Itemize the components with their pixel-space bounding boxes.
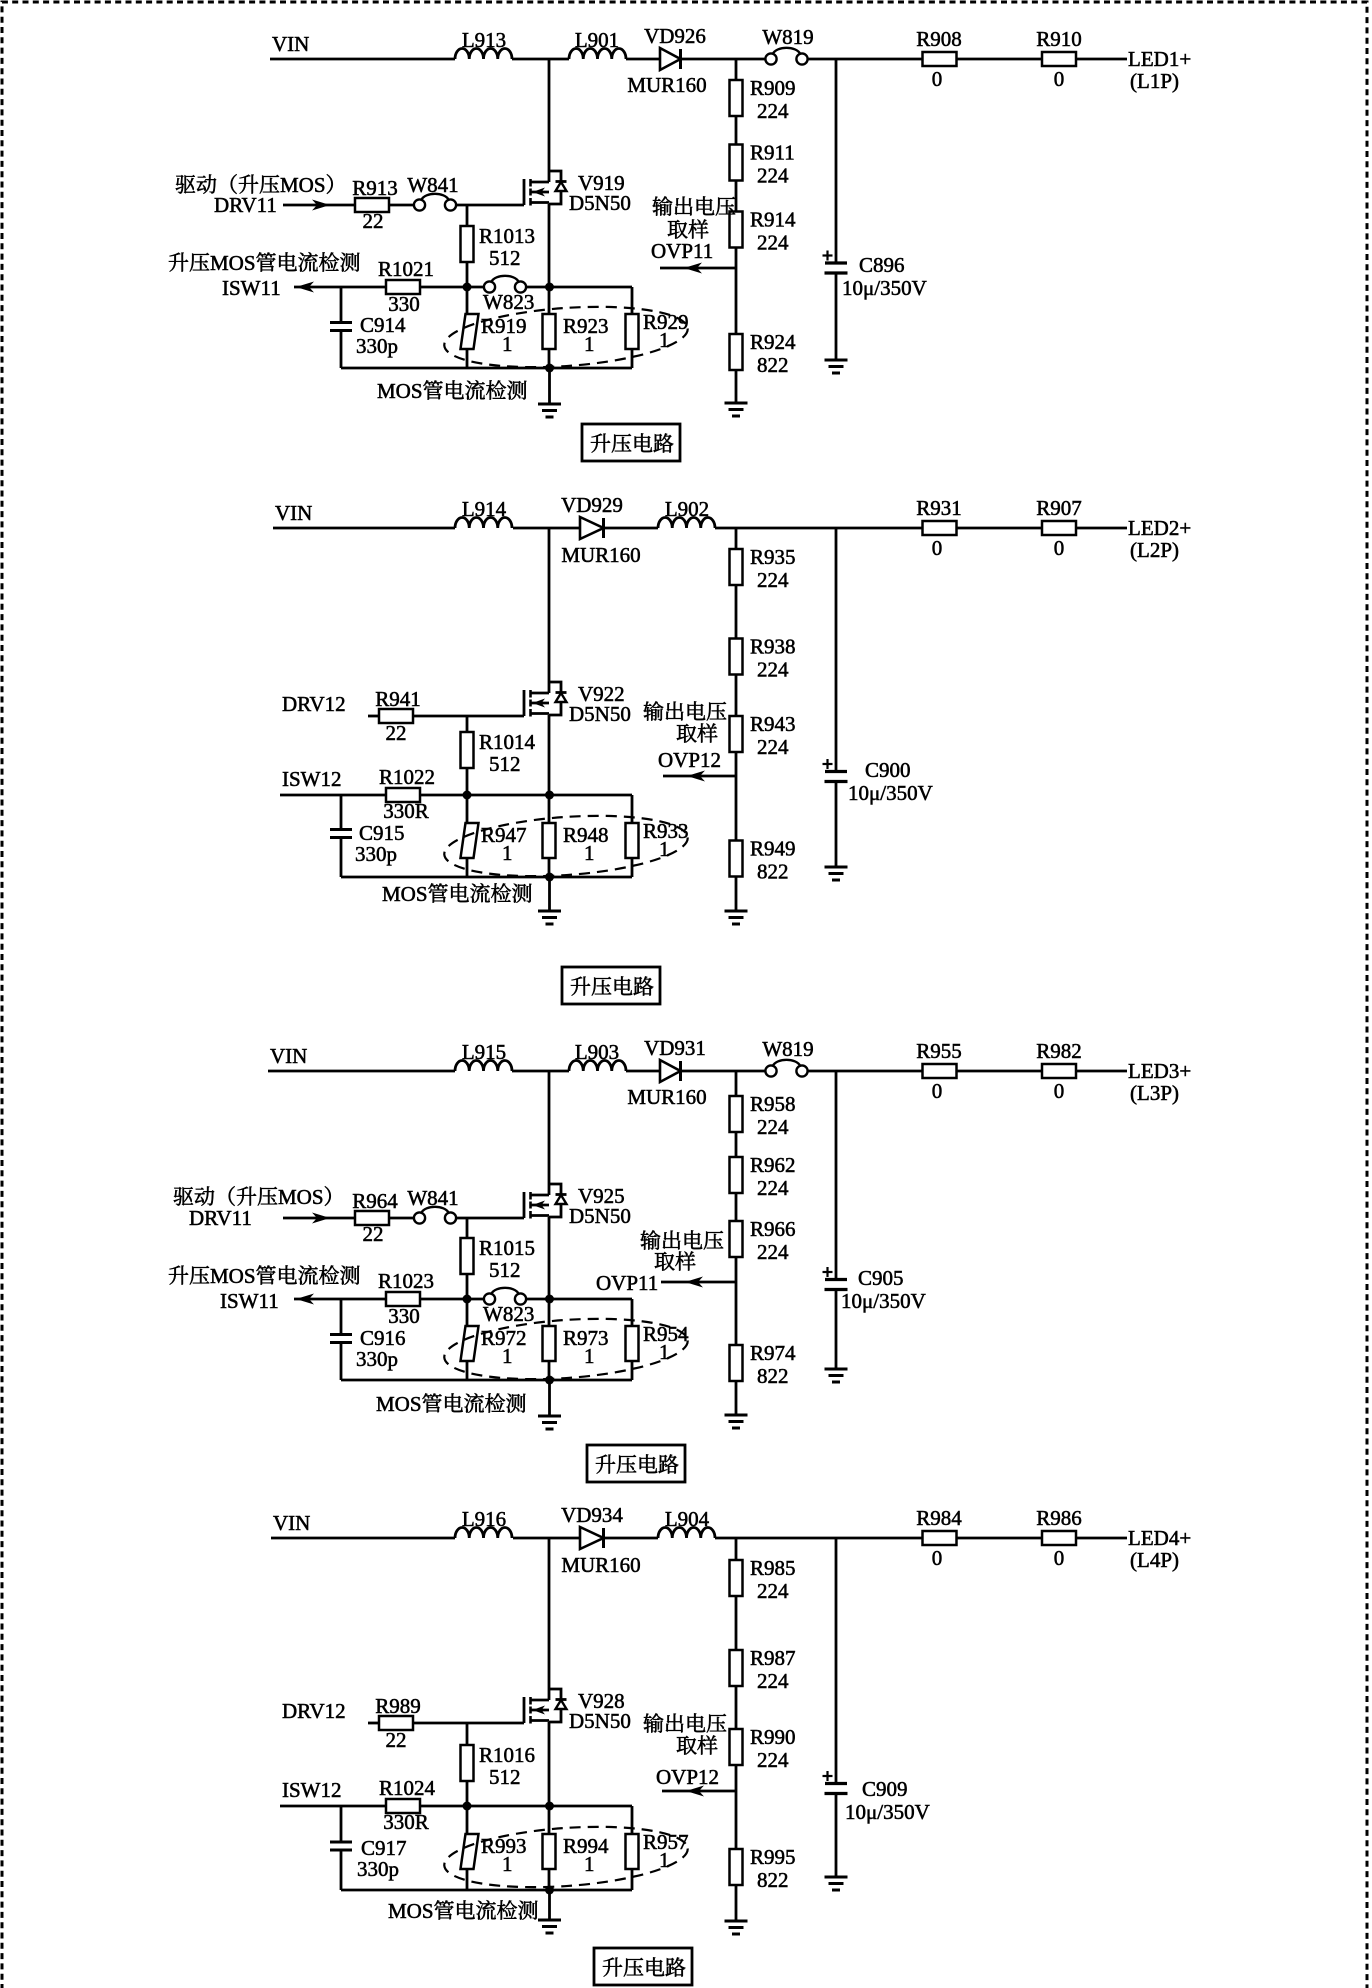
resistor R923 1: [543, 314, 556, 349]
svg-text:R1021: R1021: [378, 257, 434, 281]
wire to output: [1076, 527, 1127, 530]
svg-text:R909: R909: [750, 76, 796, 100]
capacitor C900 10u/350V: [823, 763, 833, 765]
resistor R954 1: [626, 1326, 639, 1361]
label 升压MOS管电流检测: [169, 251, 360, 275]
wire: [413, 1722, 524, 1725]
jumper W841: [414, 1212, 425, 1223]
svg-text:R984: R984: [916, 1506, 962, 1530]
label MOS管电流检测: [382, 882, 531, 906]
wire: [466, 858, 469, 877]
svg-text:MOS: MOS: [210, 1264, 256, 1288]
resistor R910: [1042, 52, 1076, 66]
wire: [466, 1781, 469, 1806]
junction: [545, 283, 554, 292]
wire divider drop: [735, 1071, 738, 1096]
svg-text:224: 224: [757, 231, 789, 255]
svg-text:1: 1: [584, 841, 595, 865]
dashed ellipse current sense group: [442, 809, 689, 884]
resistor R994 1: [543, 1834, 556, 1869]
svg-text:224: 224: [757, 735, 789, 759]
resistor R929 1: [626, 314, 639, 349]
transistor V919: [523, 179, 526, 205]
wire VIN rail: [268, 1070, 455, 1073]
svg-text:C900: C900: [865, 758, 911, 782]
wire: [735, 370, 738, 403]
wire: [631, 1361, 634, 1380]
wire source: [548, 1722, 551, 1806]
svg-text:VD931: VD931: [644, 1036, 706, 1060]
svg-text:LED1+: LED1+: [1128, 47, 1191, 71]
wire: [735, 1381, 738, 1415]
wire: [466, 287, 469, 314]
svg-text:330: 330: [388, 1304, 420, 1328]
svg-text:R1014: R1014: [479, 730, 536, 754]
wire: [715, 1537, 922, 1540]
svg-text:VIN: VIN: [270, 1044, 307, 1068]
inductor L915: [455, 1061, 512, 1072]
wire: [631, 349, 634, 368]
ground: [538, 1919, 561, 1922]
svg-text:MOS: MOS: [278, 1185, 324, 1209]
label W823: [483, 1302, 534, 1326]
svg-text:W819: W819: [762, 1037, 813, 1061]
wire source: [548, 204, 551, 287]
resistor R1013 512: [461, 226, 474, 262]
resistor R958: [730, 1096, 743, 1132]
wire: [340, 1850, 343, 1890]
svg-text:224: 224: [757, 568, 789, 592]
wire sense rail: [341, 1889, 632, 1892]
label 取样: [668, 219, 709, 238]
wire: [631, 1806, 634, 1834]
resistor R985: [730, 1560, 743, 1596]
svg-text:ISW12: ISW12: [282, 1778, 342, 1802]
svg-text:VIN: VIN: [272, 32, 309, 56]
svg-text:(L4P): (L4P): [1130, 1548, 1179, 1572]
svg-text:1: 1: [502, 332, 513, 356]
svg-text:OVP12: OVP12: [656, 1765, 719, 1789]
svg-text:DRV11: DRV11: [214, 193, 277, 217]
resistor R935: [730, 549, 743, 585]
wire current sense: [280, 794, 386, 797]
svg-text:22: 22: [363, 1222, 384, 1246]
svg-text:0: 0: [932, 536, 943, 560]
wire: [466, 262, 469, 287]
junction: [463, 283, 472, 292]
svg-text:DRV12: DRV12: [282, 1699, 346, 1723]
wire drain: [548, 1071, 551, 1184]
resistor R1021: [386, 280, 420, 294]
junction: [463, 791, 472, 800]
wire: [340, 838, 343, 878]
wire: [466, 1869, 469, 1890]
wire: [548, 1869, 551, 1890]
svg-text:C896: C896: [859, 253, 905, 277]
svg-text:R964: R964: [352, 1189, 398, 1213]
wire: [466, 768, 469, 795]
wire: [389, 204, 413, 207]
svg-text:(L3P): (L3P): [1130, 1081, 1179, 1105]
svg-text:LED4+: LED4+: [1128, 1526, 1191, 1550]
resistor R957 1: [626, 1834, 639, 1869]
svg-text:1: 1: [659, 328, 670, 352]
capacitor C914 330p: [330, 321, 352, 324]
svg-text:0: 0: [1054, 1079, 1065, 1103]
dashed ellipse current sense group: [442, 300, 689, 375]
svg-text:R987: R987: [750, 1646, 796, 1670]
ground: [538, 910, 561, 913]
resistor R993 1: [461, 1834, 479, 1869]
wire: [631, 287, 634, 314]
svg-text:MOS: MOS: [388, 1899, 434, 1923]
svg-text:L913: L913: [462, 28, 506, 52]
svg-text:R911: R911: [750, 141, 795, 165]
capacitor C909 10u/350V: [823, 1775, 833, 1777]
svg-text:224: 224: [757, 1748, 789, 1772]
svg-text:330p: 330p: [356, 334, 398, 358]
resistor R919 1: [461, 314, 479, 349]
wire: [735, 1765, 738, 1791]
wire: [735, 1257, 738, 1282]
svg-text:0: 0: [1054, 536, 1065, 560]
wire VIN rail: [270, 58, 455, 61]
dashed ellipse current sense group: [442, 1312, 689, 1387]
wire: [466, 1218, 469, 1238]
ground: [538, 1415, 561, 1418]
wire divider drop: [735, 528, 738, 549]
wire: [735, 1885, 738, 1921]
svg-text:R1016: R1016: [479, 1743, 535, 1767]
svg-text:R985: R985: [750, 1556, 796, 1580]
label MOS管电流检测: [376, 1392, 525, 1416]
wire: [631, 1869, 634, 1890]
wire OVP signal: [661, 1281, 736, 1284]
svg-text:512: 512: [489, 1765, 521, 1789]
wire: [548, 1806, 551, 1834]
svg-text:ISW11: ISW11: [220, 1289, 279, 1313]
svg-text:330R: 330R: [383, 1810, 429, 1834]
diode VD931 MUR160: [660, 1060, 681, 1082]
svg-text:10μ/350V: 10μ/350V: [842, 276, 927, 300]
svg-text:22: 22: [363, 209, 384, 233]
wire VIN rail: [273, 527, 455, 530]
resistor R973 1: [543, 1326, 556, 1361]
svg-text:0: 0: [1054, 1546, 1065, 1570]
resistor R907: [1042, 521, 1076, 535]
resistor R947 1: [461, 823, 479, 858]
label box 升压电路: [594, 1948, 692, 1985]
svg-text:R958: R958: [750, 1092, 796, 1116]
wire: [466, 716, 469, 732]
wire: [808, 58, 922, 61]
svg-text:512: 512: [489, 1258, 521, 1282]
resistor R1016 512: [461, 1745, 474, 1781]
ground: [725, 1414, 748, 1417]
svg-text:R955: R955: [916, 1039, 962, 1063]
ground: [538, 403, 561, 406]
resistor R931: [923, 521, 957, 535]
svg-text:R949: R949: [750, 837, 796, 861]
junction: [545, 791, 554, 800]
svg-text:1: 1: [659, 1848, 670, 1872]
wire: [957, 58, 1043, 61]
wire sense rail: [341, 876, 632, 879]
wire: [626, 58, 660, 61]
junction: [545, 364, 554, 373]
svg-text:0: 0: [1054, 67, 1065, 91]
svg-text:0: 0: [932, 67, 943, 91]
wire: [835, 273, 838, 360]
resistor R955: [923, 1064, 957, 1078]
jumper W823: [484, 281, 495, 292]
wire current sense: [294, 1298, 386, 1301]
svg-text:R962: R962: [750, 1153, 796, 1177]
resistor R1024: [386, 1799, 420, 1813]
svg-text:DRV11: DRV11: [189, 1206, 252, 1230]
wire VIN rail: [271, 1537, 455, 1540]
svg-text:LED2+: LED2+: [1128, 516, 1191, 540]
wire: [466, 1361, 469, 1380]
svg-text:ISW12: ISW12: [282, 767, 342, 791]
label box 升压电路: [562, 967, 660, 1004]
wire OVP signal: [662, 1790, 736, 1793]
wire: [340, 331, 343, 369]
resistor R964 22: [355, 1211, 389, 1225]
resistor R911: [730, 145, 743, 181]
label 升压MOS管电流检测: [169, 1264, 360, 1288]
svg-text:R995: R995: [750, 1845, 796, 1869]
svg-text:822: 822: [757, 860, 789, 884]
wire: [513, 1537, 580, 1540]
wire: [631, 795, 634, 823]
svg-text:C905: C905: [858, 1266, 904, 1290]
svg-text:822: 822: [757, 1364, 789, 1388]
resistor R972 1: [461, 1326, 479, 1361]
svg-text:224: 224: [757, 1176, 789, 1200]
label 输出电压: [644, 1713, 727, 1733]
junction: [545, 873, 554, 882]
resistor R990: [730, 1729, 743, 1765]
wire OVP tap: [735, 268, 738, 334]
resistor R1023: [386, 1292, 420, 1306]
label box 升压电路: [582, 424, 680, 461]
svg-text:R941: R941: [375, 687, 421, 711]
svg-text:R974: R974: [750, 1341, 796, 1365]
wire cap drop: [835, 528, 838, 772]
svg-text:330p: 330p: [355, 842, 397, 866]
resistor R962: [730, 1157, 743, 1193]
svg-text:VD934: VD934: [561, 1503, 623, 1527]
ground: [725, 402, 748, 405]
wire: [957, 527, 1043, 530]
svg-text:224: 224: [757, 1669, 789, 1693]
wire: [715, 527, 922, 530]
wire: [808, 1070, 922, 1073]
inductor L913: [455, 49, 512, 60]
svg-text:224: 224: [757, 164, 789, 188]
wire: [957, 1070, 1043, 1073]
wire: [631, 858, 634, 877]
svg-text:(L1P): (L1P): [1130, 69, 1179, 93]
wire: [735, 1596, 738, 1650]
inductor L902: [658, 518, 715, 529]
inductor L901: [569, 49, 626, 60]
svg-text:10μ/350V: 10μ/350V: [845, 1800, 930, 1824]
capacitor C896 10u/350V: [823, 254, 833, 256]
svg-text:330p: 330p: [356, 1347, 398, 1371]
svg-text:W823: W823: [483, 290, 534, 314]
resistor R913 22: [355, 198, 389, 212]
resistor R949: [730, 841, 743, 877]
svg-text:L915: L915: [462, 1040, 506, 1064]
wire: [466, 205, 469, 226]
wire node to L: [512, 58, 569, 61]
svg-text:330R: 330R: [383, 799, 429, 823]
svg-text:512: 512: [489, 246, 521, 270]
svg-text:VD929: VD929: [561, 493, 623, 517]
svg-text:R986: R986: [1036, 1506, 1082, 1530]
svg-text:R990: R990: [750, 1725, 796, 1749]
capacitor C917 330p: [330, 1841, 352, 1844]
wire: [513, 527, 580, 530]
resistor R938: [730, 639, 743, 675]
ground: [725, 1920, 748, 1923]
label box 升压电路: [587, 1445, 685, 1482]
wire: [548, 287, 551, 314]
svg-text:1: 1: [659, 837, 670, 861]
svg-text:R907: R907: [1036, 496, 1082, 520]
svg-text:224: 224: [757, 99, 789, 123]
svg-text:W841: W841: [407, 1186, 458, 1210]
wire: [957, 1537, 1043, 1540]
wire: [420, 1298, 483, 1301]
svg-text:1: 1: [659, 1340, 670, 1364]
wire OVP tap: [735, 1791, 738, 1849]
svg-text:D5N50: D5N50: [569, 702, 631, 726]
capacitor C905 10u/350V: [823, 1271, 833, 1273]
wire: [340, 1343, 343, 1381]
wire: [526, 286, 632, 289]
wire to output: [1076, 58, 1127, 61]
svg-text:R943: R943: [750, 712, 796, 736]
svg-text:10μ/350V: 10μ/350V: [848, 781, 933, 805]
inductor L914: [455, 518, 512, 529]
wire: [631, 1299, 634, 1326]
wire: [735, 181, 738, 212]
wire: [466, 1806, 469, 1834]
label MOS管电流检测: [377, 379, 526, 403]
svg-text:L903: L903: [575, 1040, 619, 1064]
wire: [526, 1298, 632, 1301]
wire current sense: [280, 1805, 386, 1808]
svg-text:D5N50: D5N50: [569, 1204, 631, 1228]
svg-text:512: 512: [489, 752, 521, 776]
svg-text:822: 822: [757, 353, 789, 377]
svg-text:1: 1: [502, 1344, 513, 1368]
svg-text:822: 822: [757, 1868, 789, 1892]
wire: [735, 752, 738, 776]
svg-text:W823: W823: [483, 1302, 534, 1326]
svg-text:L916: L916: [462, 1507, 506, 1531]
label 输出电压: [644, 701, 727, 721]
wire: [466, 1274, 469, 1299]
wire: [835, 782, 838, 868]
svg-text:L901: L901: [575, 28, 619, 52]
junction: [545, 1376, 554, 1385]
svg-text:224: 224: [757, 658, 789, 682]
svg-text:OVP12: OVP12: [658, 748, 721, 772]
resistor R982: [1042, 1064, 1076, 1078]
svg-text:VD926: VD926: [644, 24, 706, 48]
wire: [735, 1686, 738, 1729]
wire: [548, 1380, 551, 1416]
inductor L904: [658, 1528, 715, 1539]
svg-text:MOS: MOS: [376, 1392, 422, 1416]
svg-text:R1024: R1024: [379, 1776, 436, 1800]
svg-text:W819: W819: [762, 25, 813, 49]
svg-text:VIN: VIN: [275, 501, 312, 525]
wire: [681, 58, 766, 61]
resistor R941 22: [379, 709, 413, 723]
svg-text:R1015: R1015: [479, 1236, 535, 1260]
wire: [456, 1217, 524, 1220]
svg-text:224: 224: [757, 1115, 789, 1139]
resistor R914: [730, 212, 743, 248]
wire: [420, 794, 632, 797]
label 输出电压: [653, 196, 736, 216]
capacitor C915 330p: [330, 828, 352, 831]
svg-text:R924: R924: [750, 330, 796, 354]
svg-text:MOS: MOS: [382, 882, 428, 906]
wire OVP tap: [735, 1282, 738, 1345]
inductor L916: [455, 1528, 512, 1539]
svg-text:1: 1: [502, 841, 513, 865]
wire: [548, 858, 551, 877]
resistor R989 22: [379, 1716, 413, 1730]
junction: [545, 1802, 554, 1811]
jumper W823: [484, 1293, 495, 1304]
label 取样: [677, 723, 718, 742]
wire: [735, 116, 738, 145]
resistor R924: [730, 334, 743, 370]
svg-text:MUR160: MUR160: [561, 543, 640, 567]
label 取样: [677, 1735, 718, 1754]
svg-text:0: 0: [932, 1079, 943, 1103]
wire: [548, 368, 551, 404]
label 驱动（升压MOS）: [174, 1185, 331, 1209]
wire: [835, 1794, 838, 1878]
resistor R1022: [386, 788, 420, 802]
svg-text:L914: L914: [462, 497, 507, 521]
svg-text:R914: R914: [750, 208, 796, 232]
transistor V925: [523, 1192, 526, 1218]
svg-text:R931: R931: [916, 496, 962, 520]
diode VD934 MUR160: [580, 1527, 604, 1549]
wire divider drop: [735, 59, 738, 80]
wire: [340, 1299, 343, 1335]
svg-text:R982: R982: [1036, 1039, 1082, 1063]
svg-text:R935: R935: [750, 545, 796, 569]
resistor R943: [730, 716, 743, 752]
wire sense rail: [341, 1379, 632, 1382]
wire: [735, 675, 738, 717]
resistor R1014 512: [461, 732, 474, 768]
wire gate drive: [368, 715, 379, 718]
resistor R986: [1042, 1531, 1076, 1545]
svg-text:R1022: R1022: [379, 765, 435, 789]
svg-text:1: 1: [584, 1344, 595, 1368]
